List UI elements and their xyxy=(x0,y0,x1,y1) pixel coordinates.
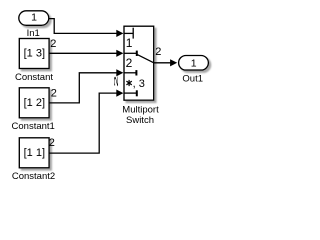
svg-text:2: 2 xyxy=(51,88,57,100)
svg-text:Constant: Constant xyxy=(15,72,53,83)
wire Constant1 to Multiport Switch data port 2 xyxy=(49,69,123,103)
svg-text:2: 2 xyxy=(49,137,55,149)
svg-text:[1 1]: [1 1] xyxy=(24,147,45,159)
inport In1 xyxy=(19,11,49,39)
svg-text:Constant1: Constant1 xyxy=(12,121,55,132)
svg-text:[1 2]: [1 2] xyxy=(24,97,45,109)
wire In1 to Multiport Switch control port xyxy=(49,19,123,37)
data port 1 marker xyxy=(124,52,137,54)
control port marker xyxy=(124,32,133,34)
svg-text:2: 2 xyxy=(155,46,161,58)
svg-text:2: 2 xyxy=(113,75,119,87)
constant block Constant2 [1 1] xyxy=(12,138,55,182)
svg-text:Out1: Out1 xyxy=(182,73,203,84)
constant block Constant [1 3] xyxy=(15,39,53,84)
svg-text:, 3: , 3 xyxy=(133,78,145,90)
port label asterisk xyxy=(126,80,131,86)
constant block Constant1 [1 2] xyxy=(12,88,55,132)
svg-text:2: 2 xyxy=(126,56,133,70)
wire Constant2 to Multiport Switch data port 3 xyxy=(49,90,123,154)
svg-text:Multiport: Multiport xyxy=(122,104,159,115)
svg-text:In1: In1 xyxy=(27,28,40,39)
multiport switch block xyxy=(122,26,159,126)
switch arm xyxy=(137,55,154,63)
wire Constant to Multiport Switch data port 1 xyxy=(49,50,123,57)
svg-text:[1 3]: [1 3] xyxy=(24,48,45,60)
svg-text:2: 2 xyxy=(50,38,56,50)
svg-text:1: 1 xyxy=(191,58,197,70)
data port 3 marker xyxy=(124,92,136,94)
wire Multiport Switch to Out1 xyxy=(154,59,177,66)
svg-text:1: 1 xyxy=(31,12,37,24)
outport Out1 xyxy=(179,56,209,85)
svg-text:1: 1 xyxy=(126,36,133,50)
svg-text:Constant2: Constant2 xyxy=(12,171,55,182)
svg-text:Switch: Switch xyxy=(126,115,154,126)
data port 2 marker xyxy=(124,72,136,74)
